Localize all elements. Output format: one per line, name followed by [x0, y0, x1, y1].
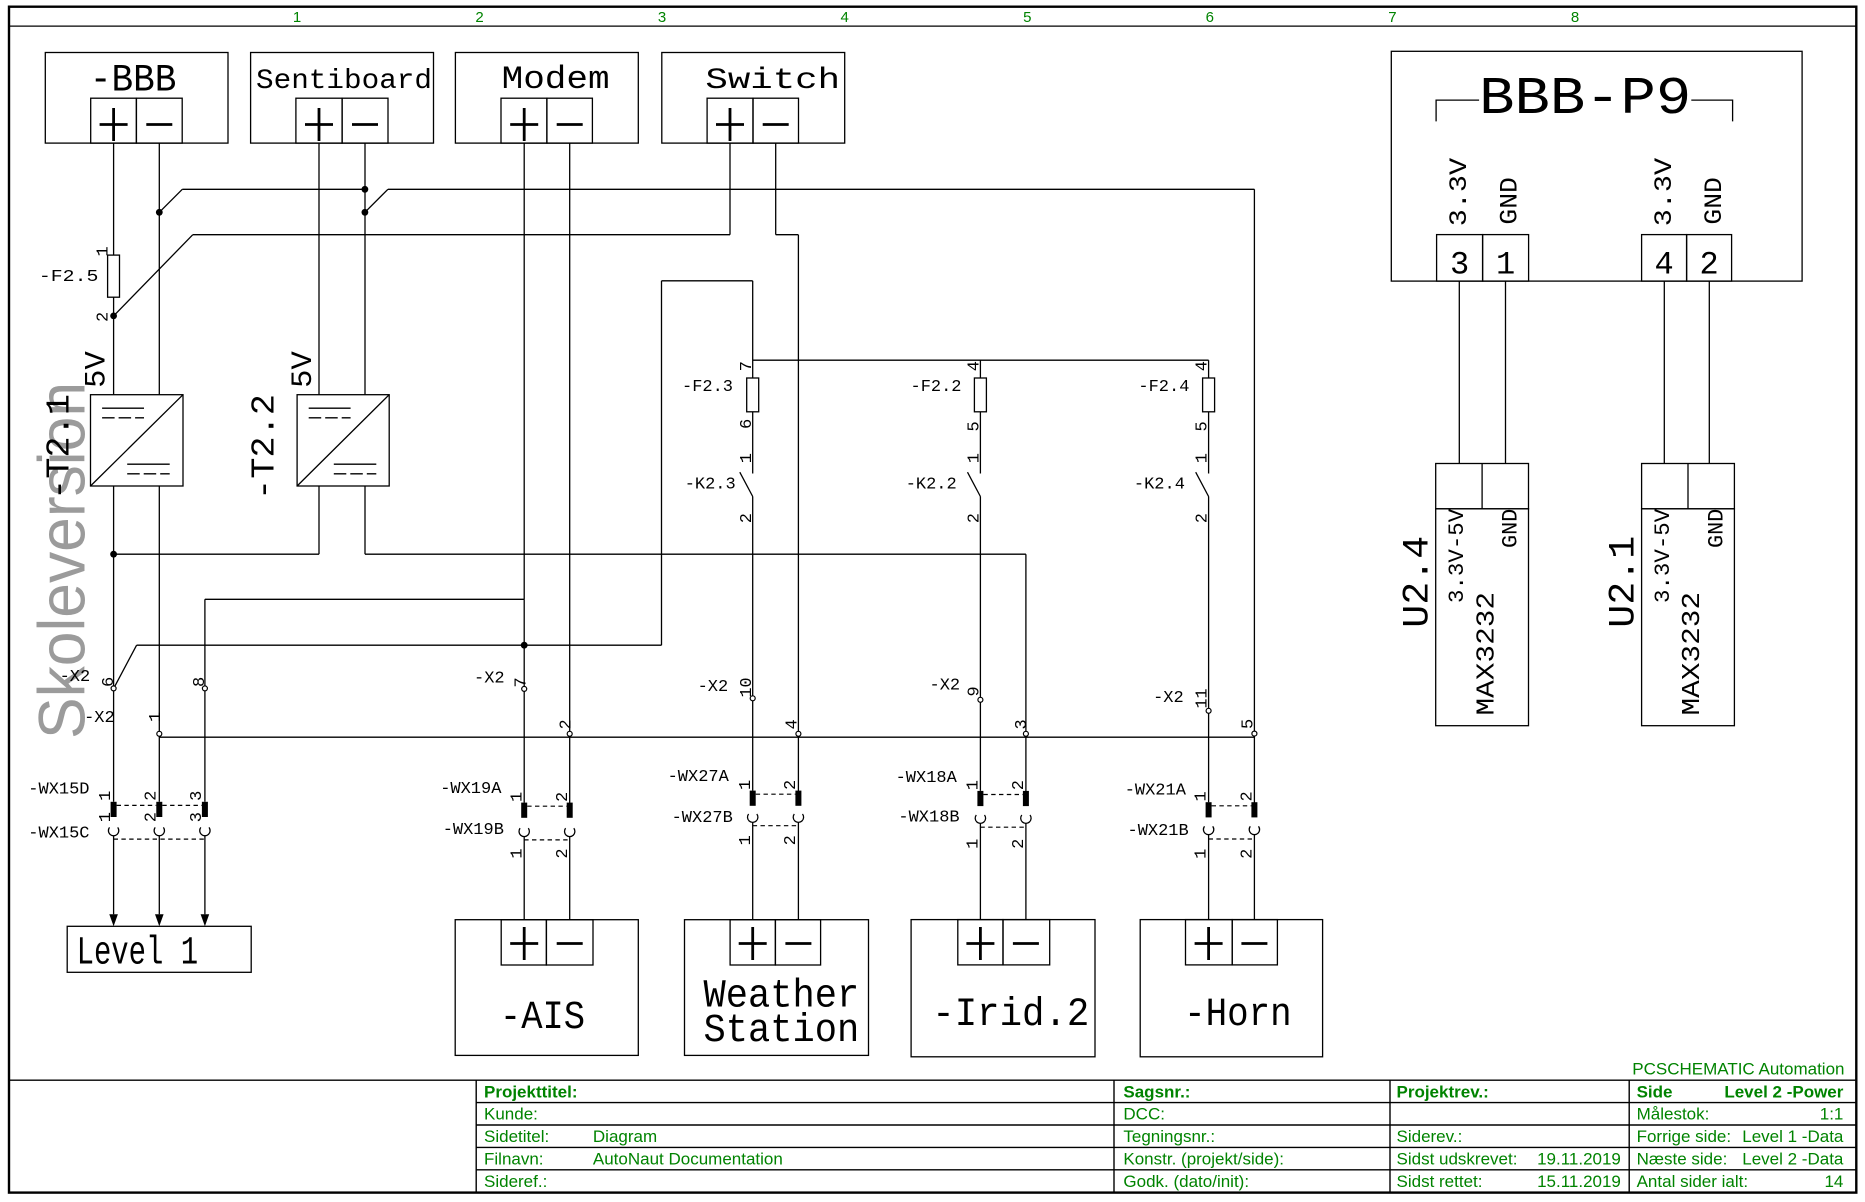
- box -Horn: [1140, 920, 1322, 1057]
- svg-text:2: 2: [475, 9, 483, 26]
- terminal - of Switch: [753, 98, 799, 143]
- wire Switch + down to bus B: [729, 143, 731, 235]
- svg-text:11: 11: [1194, 689, 1213, 709]
- svg-text:2: 2: [557, 719, 576, 729]
- svg-text:6: 6: [1206, 9, 1214, 26]
- box Level 1: [67, 926, 251, 972]
- svg-text:7: 7: [1388, 9, 1396, 26]
- svg-text:-K2.2: -K2.2: [906, 475, 957, 494]
- svg-text:Kunde:: Kunde:: [484, 1105, 538, 1124]
- wire Modem + down: [523, 143, 525, 599]
- svg-text:7: 7: [513, 677, 532, 687]
- svg-text:Level 2 -Data: Level 2 -Data: [1742, 1150, 1844, 1169]
- terminal -X2 pin 2: [567, 731, 572, 736]
- svg-text:2: 2: [1699, 247, 1718, 284]
- svg-text:-BBB: -BBB: [90, 59, 176, 103]
- wire rail down to X2 pin 3: [1025, 554, 1027, 806]
- svg-text:Antal sider ialt:: Antal sider ialt:: [1637, 1172, 1749, 1191]
- wire bus A left segment: [182, 188, 365, 190]
- terminal -X2 pin 3: [1023, 731, 1028, 736]
- terminal -X2 pin 10: [750, 696, 755, 701]
- wire down to X2 pin 8: [204, 599, 206, 802]
- svg-text:DCC:: DCC:: [1123, 1105, 1165, 1124]
- wire WX18B pin1 to -Irid.2 +: [979, 823, 981, 919]
- contact -K2.2: [968, 472, 981, 496]
- wire WX15C pin1 to Level 1: [113, 836, 115, 915]
- wire T2.2 output - down: [364, 486, 366, 554]
- svg-text:-X2: -X2: [474, 670, 505, 689]
- svg-text:Sideref.:: Sideref.:: [484, 1172, 547, 1191]
- wire T2.1 output - down to Level 1: [158, 486, 160, 802]
- box Switch: [662, 53, 845, 144]
- svg-text:5V: 5V: [80, 351, 114, 388]
- wire WX27B pin1 to Weather Station +: [752, 822, 754, 919]
- terminal + of -AIS: [501, 920, 546, 965]
- node Sentiboard minus junction: [362, 209, 369, 216]
- svg-text:4: 4: [783, 719, 802, 729]
- svg-text:3: 3: [188, 812, 207, 822]
- wire 5V rail top run to F2.3: [662, 280, 753, 282]
- wire WX19B pin2 to -AIS -: [569, 837, 571, 920]
- svg-text:Level 1: Level 1: [77, 932, 199, 977]
- wire F2.4 to contact K2.4: [1208, 412, 1210, 474]
- cable -WX18A: [977, 791, 1029, 806]
- node 5V rail at Modem + branch: [521, 642, 528, 649]
- wire BBB-P9 pin 1 to U2.4: [1505, 281, 1507, 463]
- terminal - of -BBB: [136, 98, 182, 143]
- svg-text:1: 1: [1496, 247, 1515, 284]
- cable -WX15C: [108, 827, 210, 839]
- svg-text:1: 1: [1194, 453, 1213, 463]
- wire F2.2 top stub: [979, 360, 981, 378]
- wire T2.2 output + to T2.1 output rail: [114, 553, 319, 555]
- contact -K2.4: [1196, 472, 1209, 496]
- terminal + of Switch: [707, 98, 753, 143]
- svg-text:Projekttitel:: Projekttitel:: [484, 1082, 578, 1101]
- svg-text:-WX15D: -WX15D: [28, 781, 89, 800]
- wire F2.3 to contact K2.3: [752, 412, 754, 474]
- svg-text:3.3V: 3.3V: [1650, 158, 1679, 226]
- svg-text:-X2: -X2: [1153, 689, 1184, 708]
- wire -BBB - down to converter T2.1: [158, 143, 160, 395]
- fuse -F2.4: [1203, 378, 1215, 412]
- wire BBB-P9 pin 2 to U2.1: [1708, 281, 1710, 463]
- terminal -X2 pin 11: [1206, 708, 1211, 713]
- svg-text:GND: GND: [1499, 509, 1524, 548]
- svg-text:Station: Station: [704, 1009, 860, 1054]
- svg-text:Modem: Modem: [502, 61, 610, 98]
- svg-text:4: 4: [841, 9, 849, 26]
- svg-text:1: 1: [293, 9, 301, 26]
- svg-text:-K2.3: -K2.3: [685, 475, 736, 494]
- svg-text:Sagsnr.:: Sagsnr.:: [1123, 1082, 1190, 1101]
- cable -WX19A: [521, 803, 573, 818]
- svg-text:Side: Side: [1637, 1082, 1673, 1101]
- svg-text:2: 2: [1194, 513, 1213, 523]
- connector BBB-P9: [1391, 51, 1802, 281]
- svg-text:5: 5: [1023, 9, 1031, 26]
- svg-text:-WX21A: -WX21A: [1125, 782, 1187, 801]
- svg-text:1: 1: [508, 792, 527, 802]
- svg-text:1: 1: [965, 780, 984, 790]
- terminal - of -Horn: [1232, 920, 1277, 965]
- wire fuse feed rail: [753, 359, 1209, 361]
- svg-text:10: 10: [738, 678, 757, 698]
- wire WX21B pin2 to -Horn -: [1253, 835, 1255, 920]
- svg-text:Siderev.:: Siderev.:: [1397, 1127, 1463, 1146]
- svg-text:Konstr. (projekt/side):: Konstr. (projekt/side):: [1123, 1150, 1284, 1169]
- wire -BBB + down to fuse F2.5: [113, 143, 115, 255]
- node BBB minus junction: [156, 209, 163, 216]
- cable -WX27A: [750, 791, 802, 806]
- node T2.1 output join T2.2 output: [110, 551, 117, 558]
- svg-text:1: 1: [737, 780, 756, 790]
- svg-text:15.11.2019: 15.11.2019: [1537, 1172, 1621, 1191]
- wire K2.3 down to X2 pin 10: [752, 497, 754, 791]
- wire Modem + down to X2 pin 7: [523, 599, 525, 802]
- svg-text:-X2: -X2: [84, 709, 115, 728]
- terminal - of -Irid.2: [1003, 920, 1050, 965]
- svg-text:-AIS: -AIS: [500, 996, 585, 1041]
- svg-text:-WX27B: -WX27B: [672, 809, 733, 828]
- wire 5V rail: [137, 644, 662, 646]
- terminal -X2 pin 5: [1252, 731, 1257, 736]
- svg-text:GND: GND: [1705, 509, 1730, 548]
- svg-text:Diagram: Diagram: [593, 1127, 657, 1146]
- svg-text:U2.4: U2.4: [1398, 536, 1440, 628]
- svg-text:-F2.3: -F2.3: [682, 378, 733, 397]
- svg-text:-F2.4: -F2.4: [1138, 378, 1189, 397]
- fuse -F2.3: [747, 378, 759, 412]
- svg-text:4: 4: [966, 361, 985, 371]
- wire Switch - down: [775, 143, 777, 235]
- svg-text:2: 2: [782, 780, 801, 790]
- svg-text:GND: GND: [1495, 177, 1524, 225]
- wire WX21B pin1 to -Horn +: [1208, 835, 1210, 920]
- cable -WX18B: [975, 815, 1031, 827]
- svg-text:1: 1: [738, 453, 757, 463]
- wire T2.1 output + down to Level 1: [113, 486, 115, 802]
- wire Switch - jog: [776, 234, 799, 236]
- svg-text:6: 6: [100, 677, 119, 687]
- wire fuse F2.5 to converter T2.1: [113, 297, 115, 395]
- wire T2.2 output + down: [318, 486, 320, 554]
- wire bus B: [193, 234, 730, 236]
- svg-text:-Irid.2: -Irid.2: [932, 993, 1089, 1038]
- wire BBB-P9 pin 3 to U2.4: [1458, 281, 1460, 463]
- wire WX18B pin2 to -Irid.2 -: [1025, 823, 1027, 919]
- svg-text:2: 2: [143, 812, 162, 822]
- svg-text:1: 1: [94, 246, 113, 256]
- svg-text:4: 4: [1194, 361, 1213, 371]
- cable -WX21B: [1203, 826, 1259, 839]
- svg-text:2: 2: [738, 513, 757, 523]
- terminal - of Sentiboard: [342, 98, 388, 143]
- svg-text:3: 3: [188, 791, 207, 801]
- terminal + of Sentiboard: [296, 98, 342, 143]
- svg-text:MAX3232: MAX3232: [1471, 592, 1501, 716]
- wire 5V rail riser: [661, 281, 663, 645]
- svg-text:1: 1: [97, 812, 116, 822]
- node bus A at Sentiboard minus: [362, 186, 369, 193]
- wire K2.4 down to X2 pin 11: [1208, 497, 1210, 803]
- svg-text:PCSCHEMATIC Automation: PCSCHEMATIC Automation: [1632, 1060, 1844, 1079]
- svg-text:-X2: -X2: [60, 668, 91, 687]
- svg-text:-X2: -X2: [698, 678, 729, 697]
- svg-text:6: 6: [738, 419, 757, 429]
- terminal -X2 pin 1: [157, 731, 162, 736]
- svg-text:-WX19B: -WX19B: [443, 821, 504, 840]
- svg-text:Målestok:: Målestok:: [1637, 1105, 1710, 1124]
- pin 1 of BBB-P9: [1483, 235, 1529, 282]
- wire diagonal X2 pin 6 to 5V rail: [115, 645, 137, 686]
- bracket left of BBB-P9 label: [1436, 100, 1479, 121]
- wire WX15C pin2 to Level 1: [158, 836, 160, 915]
- svg-text:Switch: Switch: [705, 64, 840, 98]
- svg-text:2: 2: [554, 792, 573, 802]
- svg-text:3.3V-5V: 3.3V-5V: [1445, 508, 1470, 603]
- svg-text:2: 2: [1010, 780, 1029, 790]
- svg-text:-Horn: -Horn: [1184, 993, 1292, 1038]
- cable -WX21A: [1206, 802, 1258, 817]
- svg-text:2: 2: [143, 791, 162, 801]
- svg-text:1: 1: [1193, 791, 1212, 801]
- converter -T2.1: [91, 395, 184, 486]
- ic U2.1 MAX3232: [1642, 464, 1735, 726]
- svg-text:U2.1: U2.1: [1603, 536, 1645, 628]
- svg-text:8: 8: [1571, 9, 1579, 26]
- svg-text:Projektrev.:: Projektrev.:: [1397, 1082, 1489, 1101]
- terminal -X2 pin 7: [522, 686, 527, 691]
- svg-text:Level 1 -Data: Level 1 -Data: [1742, 1127, 1844, 1146]
- svg-text:-WX18A: -WX18A: [896, 769, 958, 788]
- pin 4 of BBB-P9: [1642, 235, 1687, 282]
- fuse -F2.2: [974, 378, 986, 412]
- svg-text:Level 2 -Power: Level 2 -Power: [1724, 1082, 1843, 1101]
- svg-text:Sentiboard: Sentiboard: [256, 66, 432, 97]
- wire Modem - down to X2 pin 2: [569, 143, 571, 817]
- svg-text:-T2.2: -T2.2: [246, 394, 283, 500]
- svg-text:-F2.5: -F2.5: [39, 268, 99, 287]
- box -BBB: [45, 53, 228, 144]
- node fuse output junction: [110, 313, 117, 320]
- wire BBB-P9 pin 4 to U2.1: [1663, 281, 1665, 463]
- svg-text:5: 5: [1194, 421, 1213, 431]
- svg-text:MAX3232: MAX3232: [1677, 592, 1707, 716]
- svg-text:Forrige side:: Forrige side:: [1637, 1127, 1731, 1146]
- svg-text:-K2.4: -K2.4: [1134, 475, 1185, 494]
- svg-text:1: 1: [97, 791, 116, 801]
- svg-text:Sidetitel:: Sidetitel:: [484, 1127, 549, 1146]
- svg-text:-WX21B: -WX21B: [1128, 822, 1189, 841]
- svg-text:3: 3: [1013, 719, 1032, 729]
- terminal -X2 pin 8: [202, 686, 207, 691]
- svg-text:AutoNaut Documentation: AutoNaut Documentation: [593, 1150, 783, 1169]
- svg-text:-X2: -X2: [930, 676, 961, 695]
- wire Sentiboard - down to T2.2: [364, 143, 366, 395]
- wire diagonal Sentiboard minus to bus A: [365, 189, 388, 212]
- wire WX15C pin3 to Level 1: [204, 836, 206, 915]
- svg-text:Tegningsnr.:: Tegningsnr.:: [1123, 1127, 1215, 1146]
- cable -WX19B: [519, 828, 575, 840]
- box -AIS: [455, 920, 638, 1056]
- svg-text:-WX15C: -WX15C: [28, 824, 89, 843]
- pin 2 of BBB-P9: [1687, 235, 1732, 282]
- svg-text:-WX19A: -WX19A: [440, 780, 502, 799]
- svg-text:Sidst udskrevet:: Sidst udskrevet:: [1397, 1150, 1518, 1169]
- svg-text:-WX27A: -WX27A: [668, 768, 730, 787]
- wire F2.4 top stub: [1208, 360, 1210, 378]
- wire bus A right segment: [388, 188, 1255, 190]
- svg-text:8: 8: [191, 677, 210, 687]
- terminal + of Weather Station: [730, 920, 775, 965]
- wire WX19B pin1 to -AIS +: [523, 837, 525, 920]
- fuse -F2.5: [108, 255, 120, 297]
- wire Sentiboard + down to T2.2: [318, 143, 320, 395]
- contact -K2.3: [740, 472, 753, 496]
- wire K2.2 down to X2 pin 9: [979, 497, 981, 791]
- wire bus A down to -Horn minus: [1253, 189, 1255, 817]
- terminal + of -Irid.2: [958, 920, 1003, 965]
- wire T2.2 output - rail to -Irid.2: [365, 553, 1026, 555]
- cable -WX27B: [747, 814, 803, 826]
- terminal + of Modem: [501, 98, 547, 143]
- svg-text:-F2.2: -F2.2: [911, 378, 962, 397]
- box Weather Station: [685, 920, 869, 1056]
- wire diagonal fuse output to bus B: [114, 235, 193, 316]
- wire Modem + branch to pin 8: [205, 598, 524, 600]
- svg-text:3.3V-5V: 3.3V-5V: [1651, 508, 1676, 603]
- terminal + of -BBB: [91, 98, 137, 143]
- terminal - of Modem: [547, 98, 593, 143]
- svg-text:19.11.2019: 19.11.2019: [1537, 1150, 1621, 1169]
- terminal - of -AIS: [546, 920, 593, 965]
- terminal + of -Horn: [1186, 920, 1233, 965]
- svg-text:Filnavn:: Filnavn:: [484, 1150, 544, 1169]
- wire WX27B pin2 to Weather Station -: [797, 822, 799, 919]
- title block grid: [9, 1080, 1856, 1192]
- svg-text:5: 5: [966, 421, 985, 431]
- box Sentiboard: [251, 53, 434, 144]
- cable -WX15D: [111, 802, 208, 817]
- bracket right of BBB-P9 label: [1691, 100, 1732, 121]
- column number strip line: [9, 25, 1856, 27]
- svg-text:1: 1: [147, 712, 166, 722]
- svg-text:Sidst rettet:: Sidst rettet:: [1397, 1172, 1483, 1191]
- wire X2 return bus: [159, 736, 1254, 738]
- svg-text:7: 7: [738, 361, 757, 371]
- svg-text:GND: GND: [1700, 177, 1729, 225]
- terminal - of Weather Station: [775, 920, 820, 965]
- svg-text:1:1: 1:1: [1820, 1105, 1844, 1124]
- terminal -X2 pin 6: [111, 686, 116, 691]
- svg-text:-WX18B: -WX18B: [898, 809, 959, 828]
- svg-text:-T2.1: -T2.1: [42, 394, 79, 500]
- svg-text:3: 3: [658, 9, 666, 26]
- svg-text:9: 9: [966, 686, 985, 696]
- svg-text:3.3V: 3.3V: [1445, 158, 1474, 226]
- wire F2.2 to contact K2.2: [979, 412, 981, 474]
- svg-text:Næste side:: Næste side:: [1637, 1150, 1728, 1169]
- svg-text:2: 2: [966, 513, 985, 523]
- wire diagonal BBB minus to bus A: [159, 189, 182, 212]
- svg-text:14: 14: [1824, 1172, 1843, 1191]
- svg-text:BBB-P9: BBB-P9: [1479, 69, 1691, 129]
- ic U2.4 MAX3232: [1436, 464, 1529, 726]
- box -Irid.2: [911, 920, 1095, 1057]
- terminal -X2 pin 9: [978, 697, 983, 702]
- converter -T2.2: [297, 395, 389, 486]
- pin 3 of BBB-P9: [1437, 235, 1483, 282]
- svg-text:3: 3: [1450, 247, 1469, 284]
- wire down to fuse F2.3: [752, 281, 754, 378]
- svg-text:5: 5: [1240, 719, 1259, 729]
- terminal -X2 pin 4: [796, 731, 801, 736]
- svg-text:5V: 5V: [287, 351, 321, 388]
- svg-text:2: 2: [1239, 791, 1258, 801]
- svg-text:Godk. (dato/init):: Godk. (dato/init):: [1123, 1172, 1249, 1191]
- wire Switch - down to Weather Station: [797, 235, 799, 806]
- svg-text:1: 1: [966, 453, 985, 463]
- svg-text:4: 4: [1654, 247, 1673, 284]
- box Modem: [455, 53, 638, 144]
